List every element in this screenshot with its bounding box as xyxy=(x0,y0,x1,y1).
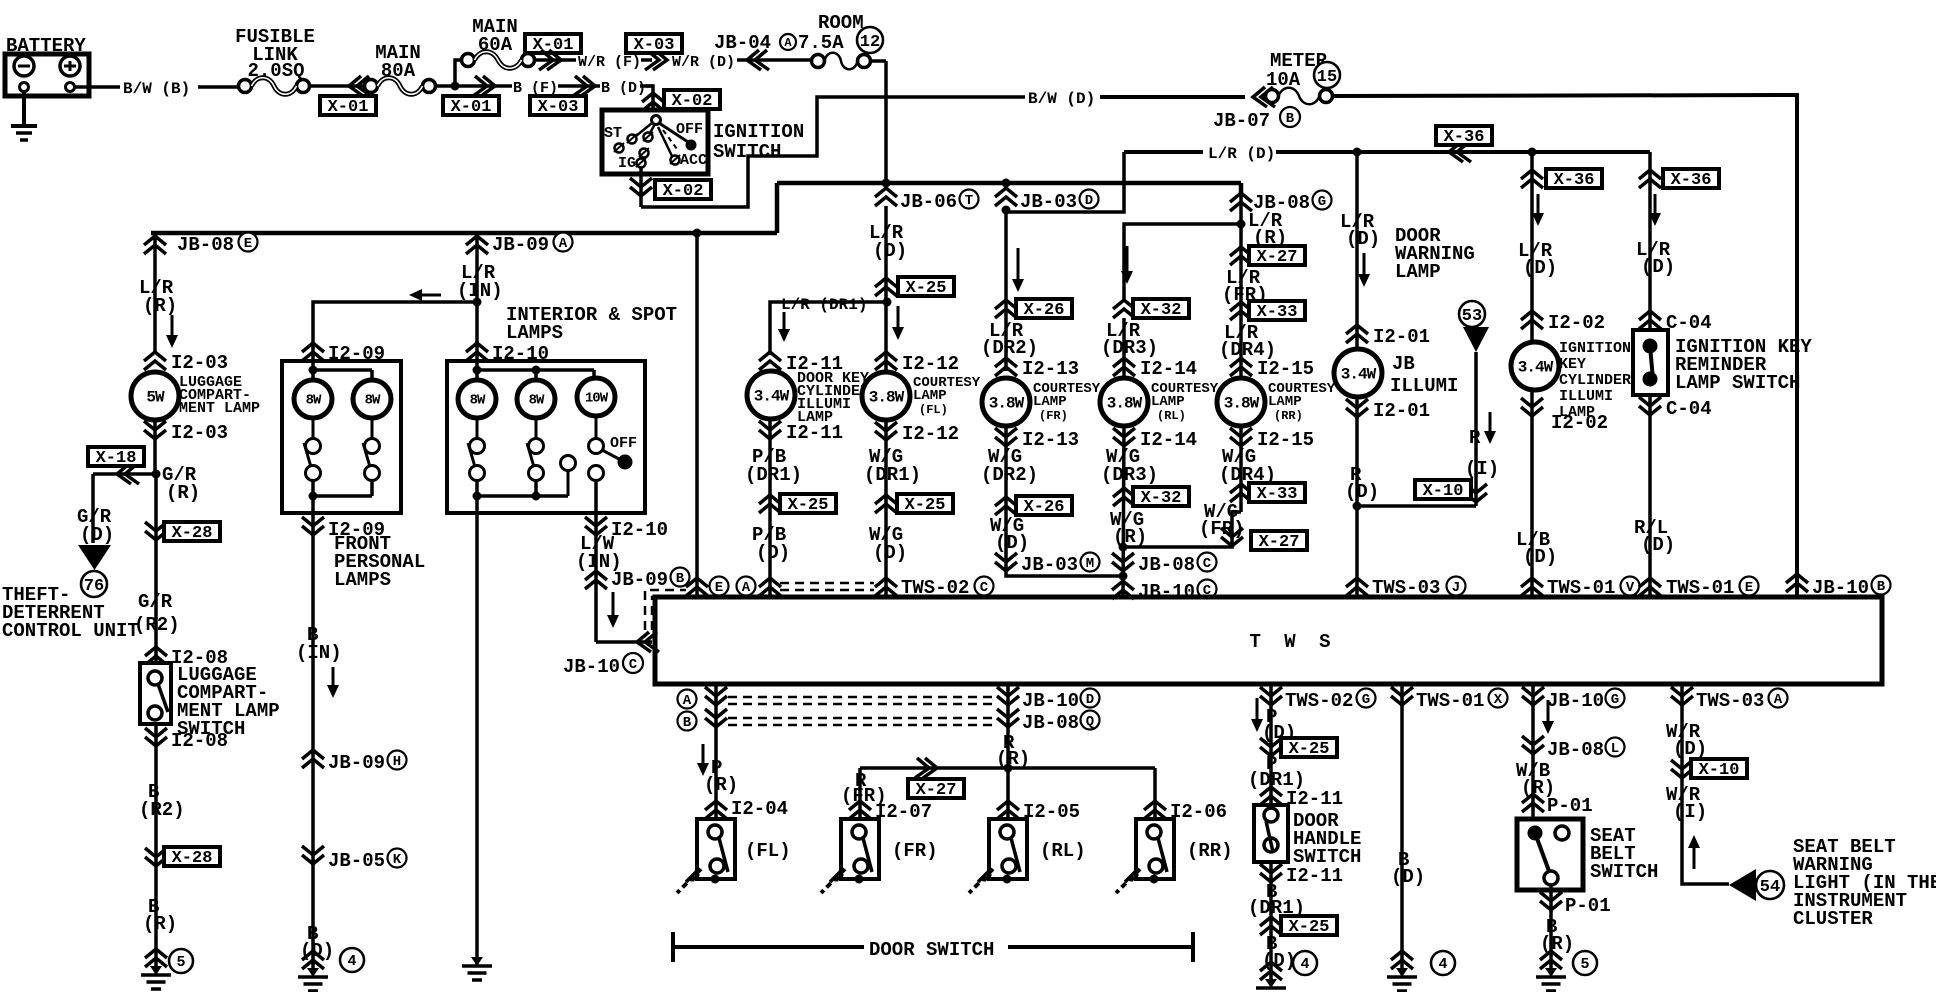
junction xyxy=(451,82,460,91)
flow arrow xyxy=(697,744,709,776)
label I2-02 xyxy=(1548,312,1605,334)
lamp 3.8W courtesy lamp RL xyxy=(1100,378,1148,426)
wire JB illumi column xyxy=(1355,152,1359,349)
label L/R (DR4) xyxy=(1219,322,1276,361)
connector box X-27 (below) xyxy=(1251,531,1307,552)
svg-text:3.8W: 3.8W xyxy=(1224,394,1260,412)
label (FR) xyxy=(892,840,938,862)
svg-text:(D): (D) xyxy=(80,524,114,546)
junction xyxy=(1353,148,1362,157)
svg-text:X-28: X-28 xyxy=(172,524,213,543)
label B (D) xyxy=(1262,933,1296,972)
connector box X-25 (top) xyxy=(898,277,954,298)
label I2-11 xyxy=(786,353,843,375)
svg-text:(DR1): (DR1) xyxy=(864,464,921,486)
wire from IG contact xyxy=(639,167,643,207)
svg-text:X-36: X-36 xyxy=(1554,171,1595,190)
circled A TWS input xyxy=(737,577,756,596)
connector I2-05 symbol xyxy=(997,801,1019,819)
connector I2-14 symbol (below) xyxy=(1113,428,1135,446)
svg-text:A: A xyxy=(1774,692,1783,708)
wire xyxy=(884,420,888,597)
svg-text:LAMPS: LAMPS xyxy=(506,322,563,344)
connector I2-07 symbol xyxy=(849,801,871,819)
connector X-28 symbol (upper) xyxy=(145,522,167,540)
connector box X-02 (bottom) xyxy=(655,180,711,201)
off-page arrow 76 xyxy=(78,545,111,570)
connector box X-33 (top) xyxy=(1249,301,1305,322)
flow arrow xyxy=(1358,253,1370,287)
svg-text:(FL): (FL) xyxy=(745,840,791,862)
wire B/W (D) to right edge xyxy=(1332,95,1797,597)
label W/G (DR1) xyxy=(864,446,921,486)
connector TWS-01 V symbol xyxy=(1521,578,1543,596)
junction xyxy=(1528,148,1537,157)
svg-text:(I): (I) xyxy=(1465,458,1499,480)
svg-text:I2-05: I2-05 xyxy=(1023,801,1080,823)
circled 4 ground ref xyxy=(1431,951,1455,975)
wire below seat belt switch xyxy=(1549,885,1553,968)
circled 12 fuse number xyxy=(857,27,883,53)
connector TWS output B symbol xyxy=(705,709,727,727)
svg-text:(R): (R) xyxy=(1113,526,1147,548)
feed line from ROOM fuse xyxy=(777,183,1241,233)
label I2-02 xyxy=(1551,412,1608,434)
label ROOM xyxy=(818,12,864,34)
wire I2-02 column xyxy=(1530,152,1534,345)
label TWS-03 J xyxy=(1372,577,1466,600)
svg-text:(RL): (RL) xyxy=(1040,840,1086,862)
svg-text:(D): (D) xyxy=(1523,257,1557,279)
label JB-08 Q xyxy=(1022,711,1100,735)
svg-text:I2-15: I2-15 xyxy=(1257,358,1314,380)
lamp 8W isl-1 xyxy=(458,380,496,418)
wire L/R (R) xyxy=(153,233,157,352)
label (FL) xyxy=(745,840,791,862)
lamp 3.4W ignition key cylinder illumi lamp xyxy=(1511,342,1559,390)
wire xyxy=(737,58,812,62)
connector TWS-03 J symbol xyxy=(1346,578,1368,596)
interior lamps bus xyxy=(151,231,777,236)
connector box X-32 (top) xyxy=(1133,299,1189,320)
connector JB-08 Q symbol xyxy=(997,709,1019,727)
flow arrow xyxy=(1688,835,1700,869)
label ACC xyxy=(680,152,707,169)
connector X-36 symbol (C-04) xyxy=(1639,170,1661,188)
connector JB-09 A symbol xyxy=(466,236,488,254)
label C-04 xyxy=(1666,398,1712,420)
inner wiring isl xyxy=(473,361,595,380)
connector X-01 symbol (B F) xyxy=(473,76,495,96)
svg-text:P-01: P-01 xyxy=(1565,895,1611,917)
svg-text:ACC: ACC xyxy=(680,152,707,169)
junction xyxy=(1237,220,1246,229)
label B (F) xyxy=(513,80,558,97)
svg-text:I2-12: I2-12 xyxy=(902,353,959,375)
wire to JB-08C column xyxy=(1006,570,1123,576)
svg-text:OFF: OFF xyxy=(676,121,703,138)
label I2-15 xyxy=(1257,358,1314,380)
label JB-09 H xyxy=(328,751,407,775)
label I2-09 xyxy=(328,519,385,541)
connector I2-11 symbol (dh below) xyxy=(1260,864,1282,882)
svg-text:8W: 8W xyxy=(470,393,486,409)
label L/R (D) xyxy=(1518,240,1557,279)
off-page arrow 53 xyxy=(1463,327,1489,352)
label P (DR1) xyxy=(1248,753,1305,791)
connector JB-04 symbol xyxy=(747,50,769,70)
svg-text:5: 5 xyxy=(176,954,185,971)
label W/R (D) xyxy=(1666,721,1707,760)
label JB-10 G xyxy=(1547,689,1625,713)
label DOOR SWITCH xyxy=(869,939,994,961)
label TWS-01 E xyxy=(1666,577,1759,600)
svg-text:(IN): (IN) xyxy=(296,642,342,664)
label L/R (R) xyxy=(139,277,177,317)
wire xyxy=(1123,426,1241,547)
label FUSIBLE LINK 2.0SQ xyxy=(235,26,315,82)
fuse ROOM 7.5A xyxy=(812,53,871,70)
circled 15 fuse number xyxy=(1314,62,1340,88)
label P-01 xyxy=(1547,795,1593,817)
label I2-05 xyxy=(1023,801,1080,823)
wire below door handle switch xyxy=(1269,862,1273,979)
svg-text:(DR1): (DR1) xyxy=(745,464,802,486)
svg-text:I2-13: I2-13 xyxy=(1022,358,1079,380)
wire W/R xyxy=(534,58,576,62)
flow arrow xyxy=(1484,412,1496,444)
svg-text:X-33: X-33 xyxy=(1257,485,1298,504)
label OFF xyxy=(610,435,637,452)
connector JB-10 B symbol xyxy=(1786,574,1808,592)
svg-text:(D): (D) xyxy=(756,542,790,564)
connector JB-05 K symbol xyxy=(302,846,324,864)
svg-text:4: 4 xyxy=(1438,956,1447,973)
label W/G (D) xyxy=(990,515,1029,554)
dashed pair row2 xyxy=(728,718,992,725)
label I2-12 xyxy=(902,353,959,375)
wire L/W to TWS xyxy=(596,640,652,644)
svg-text:LAMP: LAMP xyxy=(1395,261,1441,283)
connector P-01 symbol xyxy=(1522,794,1544,812)
connector X-26 symbol (below) xyxy=(995,497,1017,515)
svg-text:L/R (DR1): L/R (DR1) xyxy=(781,296,867,314)
label T W S xyxy=(1249,631,1336,653)
wire B/W (D) mid segment xyxy=(1100,95,1245,99)
label BATTERY xyxy=(6,35,86,57)
svg-text:I2-13: I2-13 xyxy=(1022,429,1079,451)
svg-text:X-33: X-33 xyxy=(1257,303,1298,322)
label W/G (DR3) xyxy=(1101,446,1158,486)
label B (R2) xyxy=(139,781,185,821)
label B (DR1) xyxy=(1248,881,1305,919)
svg-text:3.4W: 3.4W xyxy=(1518,358,1554,376)
svg-text:JB-08: JB-08 xyxy=(177,234,234,256)
label (RL) xyxy=(1040,840,1086,862)
svg-text:80A: 80A xyxy=(381,60,416,82)
connector C-04 symbol (below) xyxy=(1639,397,1661,415)
connector X-33 symbol (below) xyxy=(1230,484,1252,502)
svg-text:JB-08: JB-08 xyxy=(1138,554,1195,576)
svg-text:ILLUMI: ILLUMI xyxy=(1559,388,1613,405)
ground (seat belt column) xyxy=(1536,951,1566,991)
connector X-32 symbol (below) xyxy=(1113,488,1135,506)
wire RL door switch column xyxy=(1006,684,1010,818)
label METER 10A xyxy=(1266,50,1328,91)
svg-text:(D): (D) xyxy=(1673,738,1707,760)
switch isl-1 xyxy=(468,418,485,481)
svg-text:10W: 10W xyxy=(585,391,609,407)
label IGNITION KEY CYLINDER ILLUMI LAMP xyxy=(1559,340,1631,421)
label B (R) xyxy=(143,896,177,935)
wire seat belt column xyxy=(1531,684,1535,819)
luggage compartment lamp switch xyxy=(140,663,171,724)
svg-text:A: A xyxy=(559,236,568,252)
label I2-01 xyxy=(1373,400,1430,422)
label W/G (R) xyxy=(1110,509,1147,548)
svg-text:CYLINDER: CYLINDER xyxy=(1559,372,1631,389)
svg-text:(RR): (RR) xyxy=(1187,840,1233,862)
label JB-10 D xyxy=(1022,689,1100,713)
label R (I) xyxy=(1465,427,1499,480)
lamp 3.4W JB illumi xyxy=(1334,349,1382,397)
svg-text:(R): (R) xyxy=(143,913,177,935)
wire xyxy=(1239,265,1243,378)
svg-text:(RL): (RL) xyxy=(1157,409,1186,423)
svg-text:3.8W: 3.8W xyxy=(869,388,905,406)
svg-text:I2-01: I2-01 xyxy=(1373,400,1430,422)
label R (FR) xyxy=(841,770,887,807)
svg-text:G/R: G/R xyxy=(138,591,173,613)
label W/G (D) xyxy=(869,524,907,564)
wire B (D) column xyxy=(1400,684,1404,968)
svg-text:JB-10: JB-10 xyxy=(1022,690,1079,712)
wire C-04 column xyxy=(1648,170,1652,330)
svg-text:ST: ST xyxy=(604,125,622,142)
label JB-03 D xyxy=(1020,190,1099,214)
svg-text:JB-07: JB-07 xyxy=(1213,110,1270,132)
svg-text:C-04: C-04 xyxy=(1666,398,1712,420)
label L/R (DR1) xyxy=(781,296,867,314)
svg-text:A: A xyxy=(784,36,792,50)
svg-text:A: A xyxy=(742,580,751,596)
label I2-01 xyxy=(1373,326,1430,348)
svg-text:TWS-03: TWS-03 xyxy=(1696,690,1764,712)
connector I2-08 symbol xyxy=(145,647,167,665)
circled 4 ground ref xyxy=(340,948,364,972)
dashed pair row1 xyxy=(728,697,992,704)
svg-text:(R): (R) xyxy=(704,774,738,796)
wire L/R (IN) xyxy=(475,233,479,361)
svg-text:X-10: X-10 xyxy=(1423,482,1464,501)
wire RR door switch feed xyxy=(1153,768,1157,818)
inner wiring bottom fpl xyxy=(309,480,373,513)
rail corner to C-04 column xyxy=(1642,152,1650,170)
dashed pair into TWS top-left xyxy=(645,590,686,630)
label JB-09 B xyxy=(611,568,690,592)
circled 53 ref xyxy=(1459,301,1485,327)
label I2-13 xyxy=(1022,429,1079,451)
svg-text:B/W (B): B/W (B) xyxy=(123,80,190,98)
spare contact isl xyxy=(561,456,576,497)
svg-text:X-01: X-01 xyxy=(328,98,369,117)
connector box X-28 (lower) xyxy=(164,847,220,868)
connector X-01 symbol xyxy=(349,76,371,96)
svg-text:I2-11: I2-11 xyxy=(1286,865,1343,887)
wire ROOM fuse output xyxy=(870,61,886,190)
label JB-10 C xyxy=(563,653,643,678)
door switch feed line xyxy=(860,766,1155,770)
svg-text:X-02: X-02 xyxy=(663,182,704,201)
label LUGGAGE COMPART- MENT LAMP xyxy=(179,374,260,417)
svg-text:X-25: X-25 xyxy=(788,496,829,515)
svg-text:JB-08: JB-08 xyxy=(1547,739,1604,761)
svg-text:A: A xyxy=(683,693,692,709)
ignition switch rotary contacts xyxy=(614,116,697,168)
fuse MAIN 60A xyxy=(462,52,535,69)
connector X-28 symbol (lower) xyxy=(145,848,167,866)
wire xyxy=(768,419,772,512)
svg-text:X: X xyxy=(1494,692,1503,708)
connector box X-26 (top) xyxy=(1016,299,1072,320)
label DOOR WARNING LAMP xyxy=(1395,225,1475,283)
connector I2-13 symbol (below) xyxy=(995,428,1017,446)
connector X-25 symbol (top) xyxy=(875,278,897,296)
flow arrow (left) xyxy=(409,289,441,301)
svg-text:X-32: X-32 xyxy=(1141,489,1182,508)
label COURTESY LAMP (FL) xyxy=(913,375,981,417)
label C-04 xyxy=(1666,312,1712,334)
label IG xyxy=(618,155,636,172)
connector X-25 symbol (P/B) xyxy=(759,495,781,513)
L/R (D) rail xyxy=(1008,152,1642,212)
label W/G (FR) xyxy=(1199,501,1245,540)
connector I2-12 symbol (below) xyxy=(875,422,897,440)
lamp 3.8W courtesy lamp FR xyxy=(982,378,1030,426)
connector box X-28 (upper) xyxy=(164,522,220,543)
connector box X-25 (B) xyxy=(1281,916,1337,937)
label W/R (F) xyxy=(578,54,641,71)
svg-text:LAMP: LAMP xyxy=(1151,394,1185,410)
connector JB-06 T symbol xyxy=(875,188,897,206)
connector I2-08 symbol (below) xyxy=(145,728,167,746)
svg-text:3.4W: 3.4W xyxy=(754,387,790,405)
svg-text:G: G xyxy=(1318,194,1326,210)
inner wiring fpl xyxy=(309,361,373,380)
lamp 5W luggage compartment lamp xyxy=(131,370,179,420)
seat belt switch xyxy=(1517,819,1583,890)
svg-text:V: V xyxy=(1626,580,1635,596)
svg-text:L: L xyxy=(1611,741,1619,757)
wire isl ground column xyxy=(475,513,479,966)
door switch RR xyxy=(1116,819,1174,893)
connector X-36 symbol (I2-02) xyxy=(1521,170,1543,188)
connector C-04 symbol xyxy=(1639,311,1661,329)
connector I2-02 symbol (below) xyxy=(1521,398,1543,416)
svg-text:C: C xyxy=(1203,556,1212,572)
flow arrow xyxy=(1012,248,1024,292)
connector TWS-03 A symbol xyxy=(1671,687,1693,705)
label I2-06 xyxy=(1170,801,1227,823)
svg-text:CLUSTER: CLUSTER xyxy=(1793,908,1873,930)
connector box X-01 xyxy=(320,96,376,117)
connector I2-01 symbol (below) xyxy=(1346,399,1368,417)
svg-text:3.8W: 3.8W xyxy=(1107,394,1143,412)
connector I2-09 symbol xyxy=(302,343,324,361)
label FRONT PERSONAL LAMPS xyxy=(334,533,425,591)
svg-text:LAMP: LAMP xyxy=(1268,394,1302,410)
label I2-04 xyxy=(731,798,788,820)
connector I2-02 symbol xyxy=(1521,311,1543,329)
svg-text:(FR): (FR) xyxy=(892,840,938,862)
circled 54 ref xyxy=(1756,871,1784,899)
branch L/R (DR1) xyxy=(770,302,887,355)
svg-text:C-04: C-04 xyxy=(1666,312,1712,334)
svg-text:(R2): (R2) xyxy=(139,799,185,821)
connector box X-33 (below) xyxy=(1249,483,1305,504)
lamp 8W fpl-1 xyxy=(294,380,332,418)
label L/R (D) rail xyxy=(1208,145,1275,163)
label R (D) xyxy=(1345,464,1379,503)
circled 5 ground ref xyxy=(1573,951,1597,975)
label L/R (D) xyxy=(869,222,907,262)
wire xyxy=(1530,390,1534,597)
connector I2-13 symbol xyxy=(995,358,1017,376)
wire xyxy=(884,302,888,371)
svg-text:8W: 8W xyxy=(529,393,545,409)
svg-text:I2-02: I2-02 xyxy=(1548,312,1605,334)
wire xyxy=(1648,395,1652,597)
label I2-14 xyxy=(1140,358,1197,380)
svg-text:D: D xyxy=(1086,692,1094,708)
label TWS-01 V xyxy=(1547,577,1640,600)
connector X-25 symbol (P) xyxy=(1260,738,1282,756)
svg-text:X-25: X-25 xyxy=(1289,740,1330,759)
label JB-09 A xyxy=(492,233,573,257)
junction (X-18 branch) xyxy=(152,470,161,479)
svg-text:I2-10: I2-10 xyxy=(611,519,668,541)
svg-text:8W: 8W xyxy=(365,393,381,409)
connector TWS-01 E symbol xyxy=(1639,578,1661,596)
label LUGGAGE COMPART- MENT LAMP SWITCH xyxy=(177,664,280,740)
svg-text:X-18: X-18 xyxy=(96,449,137,468)
svg-text:JB-04: JB-04 xyxy=(714,32,771,54)
label MAIN 80A xyxy=(375,42,421,82)
svg-text:K: K xyxy=(393,852,402,868)
lamp 3.4W door key cylinder illumi lamp xyxy=(747,371,795,419)
branch wire to X-18 xyxy=(93,472,156,476)
svg-text:LAMP: LAMP xyxy=(1033,394,1067,410)
svg-text:(DR3): (DR3) xyxy=(1101,464,1158,486)
wire L/R (D) column xyxy=(884,206,888,302)
svg-text:JB-08: JB-08 xyxy=(1022,712,1079,734)
connector box X-18 xyxy=(88,447,144,468)
connector X-27 symbol (door) xyxy=(915,758,937,778)
label I2-14 xyxy=(1140,429,1197,451)
svg-text:(R2): (R2) xyxy=(134,614,180,636)
connector box X-10 xyxy=(1415,480,1471,501)
wire xyxy=(153,419,157,474)
wire G/R (R2) xyxy=(154,474,158,663)
label COURTESY LAMP (RL) xyxy=(1151,381,1219,423)
svg-text:X-27: X-27 xyxy=(1257,248,1298,267)
label P-01 xyxy=(1565,895,1611,917)
svg-text:X-25: X-25 xyxy=(906,279,947,298)
connector X-10 symbol xyxy=(1465,484,1487,502)
svg-text:I2-02: I2-02 xyxy=(1551,412,1608,434)
svg-text:ROOM: ROOM xyxy=(818,12,864,34)
switch isl-3 OFF xyxy=(589,416,633,481)
